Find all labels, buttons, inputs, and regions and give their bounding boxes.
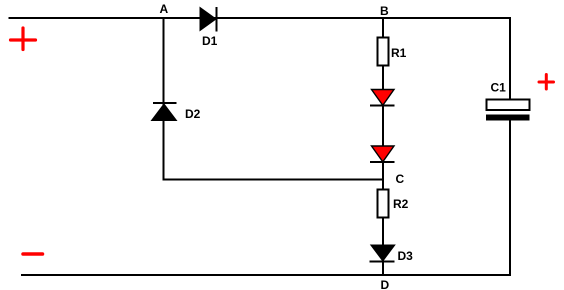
diode D2 (152, 103, 201, 121)
LED 2 (red) (370, 146, 395, 162)
capacitor C1 (486, 81, 530, 121)
resistor R2 (378, 190, 409, 218)
LED 1 (red) (370, 90, 395, 106)
svg-text:A: A (160, 2, 169, 16)
svg-text:R1: R1 (391, 46, 407, 60)
plus symbol right near C1 (red) (539, 75, 554, 90)
svg-text:D1: D1 (202, 34, 218, 48)
wire right vertical lower (C1 to bottom rail) (509, 120, 511, 276)
svg-text:B: B (380, 4, 389, 18)
minus symbol left (red) (23, 252, 43, 256)
resistor R1 (378, 38, 407, 66)
wire right vertical upper (B to C1) (509, 17, 511, 99)
wire horizontal branch to node C (163, 179, 385, 181)
svg-text:C: C (396, 172, 405, 186)
plus symbol left (red) (11, 28, 36, 50)
svg-text:D: D (381, 278, 390, 290)
wire main vertical B to D (382, 17, 384, 276)
svg-text:R2: R2 (393, 197, 409, 211)
wire bottom rail (21, 274, 511, 276)
svg-text:C1: C1 (491, 81, 507, 95)
wire top rail A-B to right (9, 17, 511, 19)
svg-text:D3: D3 (398, 249, 414, 263)
diode D3 (370, 245, 414, 263)
svg-text:D2: D2 (185, 107, 201, 121)
diode D1 (200, 7, 218, 48)
wire left branch vertical A to D2 to corner (163, 18, 165, 181)
